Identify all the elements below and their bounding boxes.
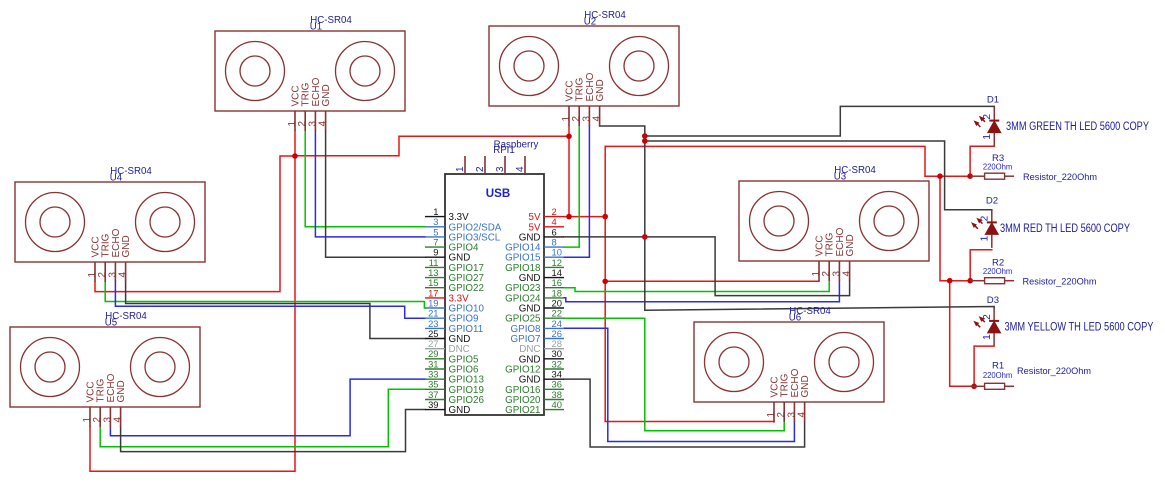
resistor R2 left stub — [970, 280, 985, 282]
pin 26 GPIO7 — [544, 338, 564, 340]
pin 3 GPIO2/SDA — [425, 226, 445, 228]
junction R2 row left — [947, 278, 953, 284]
resistor R1 left stub — [970, 385, 985, 387]
wire U1.ECHO to pin5 GPIO3 — [315, 131, 425, 237]
svg-text:3MM RED TH LED 5600 COPY: 3MM RED TH LED 5600 COPY — [1000, 221, 1130, 235]
svg-text:4: 4 — [515, 166, 526, 172]
pin 13 GPIO27 — [425, 277, 445, 279]
resistor R2 — [970, 258, 1097, 287]
svg-text:Resistor_220Ohm: Resistor_220Ohm — [1017, 366, 1091, 376]
junction R3 row left — [937, 173, 943, 179]
pin 40 GPIO21 — [544, 409, 564, 411]
svg-text:2: 2 — [475, 166, 486, 172]
LED D3 — [975, 295, 1154, 347]
pin 15 GPIO22 — [425, 287, 445, 289]
junction R2 row right — [967, 278, 973, 284]
LED D2 triangle — [985, 223, 998, 235]
pin 10 GPIO15 — [544, 256, 564, 258]
svg-text:40: 40 — [552, 399, 562, 410]
svg-text:3MM GREEN TH LED 5600 COPY: 3MM GREEN TH LED 5600 COPY — [1006, 119, 1149, 133]
LED D1 cathode pin stub — [993, 106, 995, 120]
pin 4 5V — [544, 226, 564, 228]
svg-text:D1: D1 — [987, 94, 999, 105]
LED D1 emission arrows — [975, 117, 985, 127]
pin 24 GPIO8 — [544, 327, 564, 329]
USB pin 2 — [484, 156, 486, 174]
svg-text:220Ohm: 220Ohm — [983, 266, 1013, 276]
svg-text:3MM YELLOW TH LED 5600 COPY: 3MM YELLOW TH LED 5600 COPY — [1005, 319, 1154, 333]
USB pin 4 — [524, 156, 526, 174]
wire GND branch to D1 cathode — [645, 106, 995, 136]
pin 21 GPIO9 — [425, 317, 445, 319]
pin 36 GPIO16 — [544, 388, 564, 390]
wire R3 node up to D1 anode — [970, 146, 994, 176]
svg-text:U6: U6 — [789, 313, 801, 324]
LED D1 anode pin stub — [993, 133, 995, 147]
svg-text:RPI1: RPI1 — [493, 145, 515, 156]
pin 2 5V — [544, 216, 564, 218]
pin 25 GND — [425, 338, 445, 340]
USB pin 1 — [464, 156, 466, 174]
wire pin16 GPIO23 to U3.TRIG — [564, 281, 829, 292]
wire U1.TRIG to pin3 GPIO2 — [305, 131, 425, 227]
pin 27 DNC — [425, 348, 445, 350]
pin 7 GPIO4 — [425, 246, 445, 248]
ultrasonic sensor U3 — [739, 165, 929, 281]
ultrasonic sensor U1 — [215, 15, 405, 131]
ultrasonic sensor U6 — [694, 306, 884, 422]
resistor R3 body — [985, 173, 1005, 179]
LED D1 cathode bar — [989, 120, 999, 122]
svg-text:GND: GND — [449, 405, 471, 416]
pin 8 GPIO14 — [544, 246, 564, 248]
pin 32 GPIO12 — [544, 368, 564, 370]
pin 34 GND — [544, 378, 564, 380]
resistor R1 body — [985, 383, 1005, 389]
ultrasonic sensor U4 — [15, 166, 205, 282]
svg-text:39: 39 — [428, 399, 438, 410]
svg-text:1: 1 — [982, 134, 993, 140]
svg-text:Resistor_220Ohm: Resistor_220Ohm — [1023, 172, 1097, 182]
pin 17 3.3V — [425, 297, 445, 299]
junction 5V rail at U3 branch — [602, 279, 608, 285]
wire pin24 GPIO8 to U6.ECHO — [564, 328, 794, 441]
wire R2 node down to R1 row — [950, 281, 974, 387]
pin 16 GPIO23 — [544, 287, 564, 289]
pin 35 GPIO19 — [425, 388, 445, 390]
resistor R3 right stub — [1005, 175, 1015, 177]
pin 14 GND — [544, 277, 564, 279]
resistor R1 — [970, 361, 1091, 390]
LED D2 emission arrows — [973, 219, 983, 229]
junction 5V pin2 row at x569 — [566, 214, 572, 220]
pin 39 GND — [425, 409, 445, 411]
wire R3 node down to R2 row — [940, 176, 970, 281]
pin 6 GND — [544, 236, 564, 238]
pin 30 GND — [544, 358, 564, 360]
wire U5.GND to pin39 GND — [121, 410, 425, 452]
raspberry pi RPI1 — [425, 140, 564, 417]
svg-text:220Ohm: 220Ohm — [983, 162, 1013, 172]
pin 1 3.3V — [425, 216, 445, 218]
LED D3 triangle — [988, 321, 1001, 333]
LED D1 — [975, 94, 1149, 146]
resistor R2 body — [985, 278, 1005, 284]
wire 5V pin2 row horizontal — [564, 216, 605, 218]
junction R1 row — [971, 384, 977, 390]
resistor R3 — [970, 153, 1097, 182]
wire 5V U1.VCC down-left to U5.VCC — [90, 131, 295, 471]
pin 22 GPIO25 — [544, 317, 564, 319]
wire 5V node right to U2.VCC junction — [295, 136, 569, 156]
junction U2.VCC top — [566, 134, 572, 140]
pin 19 GPIO10 — [425, 307, 445, 309]
wire U5.TRIG to pin35 GPIO19 — [100, 389, 425, 447]
pin 38 GPIO20 — [544, 399, 564, 401]
wire U4.ECHO to pin21 GPIO9 — [115, 282, 425, 318]
pin 11 GPIO17 — [425, 266, 445, 268]
svg-text:U2: U2 — [584, 17, 596, 28]
svg-text:1: 1 — [455, 166, 466, 172]
svg-text:1: 1 — [982, 334, 993, 340]
wire U4.GND to pin25 GND — [126, 282, 425, 339]
wire pin18 GPIO24 to U3.ECHO — [564, 281, 839, 302]
wire U4.TRIG to pin19 GPIO10 — [105, 282, 425, 308]
junction GND row6 crossing — [642, 234, 648, 240]
pin 20 GND — [544, 307, 564, 309]
resistor R2 right stub — [1005, 280, 1015, 282]
pin 5 GPIO3/SCL — [425, 236, 445, 238]
junction 5V pin2 row at x605 — [602, 214, 608, 220]
wire 5V rail to U3.VCC — [605, 280, 819, 282]
wire R2 node up to D2 anode — [970, 250, 992, 281]
wire 5V node to U4.VCC — [95, 156, 295, 292]
svg-text:D3: D3 — [987, 295, 999, 306]
LED D2 anode pin stub — [991, 234, 993, 248]
junction GND at D2 branch — [642, 138, 648, 144]
junction GND at D1 branch — [642, 133, 648, 139]
wire GND branch to D2 cathode — [645, 141, 992, 211]
resistor R3 left stub — [970, 175, 985, 177]
LED D2 cathode pin stub — [991, 210, 993, 223]
pin 23 GPIO11 — [425, 327, 445, 329]
pin 37 GPIO26 — [425, 399, 445, 401]
junction 5V node at U1.VCC — [292, 153, 298, 159]
pin 31 GPIO6 — [425, 368, 445, 370]
wire R1 node up to D3 anode — [974, 346, 994, 386]
wire pin6 GND to U3.GND — [564, 237, 850, 296]
pin 9 GND — [425, 256, 445, 258]
svg-text:U4: U4 — [110, 173, 123, 184]
LED D3 emission arrows — [975, 318, 985, 328]
svg-text:D2: D2 — [986, 196, 998, 207]
wire U2.VCC pin down to 5V pin2 row — [568, 126, 570, 217]
wire pin34 GND to U6.GND — [564, 379, 805, 447]
svg-text:U1: U1 — [310, 22, 322, 33]
LED D1 triangle — [988, 121, 1001, 133]
svg-text:U3: U3 — [834, 172, 846, 183]
ultrasonic sensor U2 — [489, 10, 679, 126]
LED D2 — [973, 196, 1131, 248]
LED D2 cathode bar — [987, 221, 997, 223]
pin 28 DNC — [544, 348, 564, 350]
LED D3 anode pin stub — [993, 333, 995, 347]
wire 5V top rail to R3 row — [605, 146, 970, 176]
LED D3 cathode bar — [989, 320, 999, 322]
pin 29 GPIO5 — [425, 358, 445, 360]
ultrasonic sensor U5 — [10, 311, 200, 427]
LED D3 cathode pin stub — [993, 307, 995, 321]
svg-text:220Ohm: 220Ohm — [983, 370, 1013, 380]
pin 33 GPIO13 — [425, 378, 445, 380]
USB pin 3 — [504, 156, 506, 174]
svg-text:1: 1 — [980, 235, 991, 241]
wire U2.GND down to D3 cathode — [600, 126, 995, 310]
wire U2.ECHO to pin10 GPIO15 — [564, 126, 589, 257]
svg-text:U5: U5 — [105, 318, 117, 329]
pin 12 GPIO18 — [544, 266, 564, 268]
junction R3 row right — [967, 173, 973, 179]
wire U2.TRIG to pin8 GPIO14 — [564, 126, 579, 247]
wire pin22 GPIO25 to U6.TRIG — [564, 318, 784, 431]
wire 5V vertical rail to U6.VCC — [605, 146, 774, 422]
resistor R1 right stub — [1005, 385, 1015, 387]
wire U5.ECHO to pin33 GPIO13 — [110, 379, 425, 436]
svg-text:USB: USB — [486, 188, 511, 200]
pin 18 GPIO24 — [544, 297, 564, 299]
wire U1.GND to pin9 GND — [326, 131, 425, 257]
svg-text:Resistor_220Ohm: Resistor_220Ohm — [1023, 276, 1097, 286]
svg-text:3: 3 — [495, 166, 506, 172]
svg-text:GPIO21: GPIO21 — [505, 405, 540, 416]
